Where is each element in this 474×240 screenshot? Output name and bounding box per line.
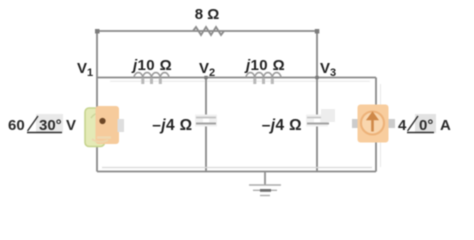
svg-text:8 Ω: 8 Ω	[195, 6, 220, 23]
ghost line above bottom wire	[102, 167, 372, 169]
wire V2 branch vertical	[205, 78, 207, 172]
svg-text:30°: 30°	[39, 117, 62, 134]
svg-text:–j4 Ω: –j4 Ω	[152, 117, 192, 134]
wire top: V1 to V3 horizontal	[97, 30, 317, 32]
svg-text:V: V	[66, 117, 76, 134]
ghost line right vertical	[380, 84, 382, 167]
resistor R 8ohm zigzag on top wire	[193, 27, 224, 35]
junction dot V3 middle	[315, 76, 318, 79]
svg-text:V3: V3	[320, 60, 336, 79]
svg-text:V1: V1	[77, 60, 93, 79]
svg-text:j10 Ω: j10 Ω	[244, 57, 285, 74]
capacitor C2 -j4ohm on V3 branch	[306, 109, 335, 127]
junction dot V2 middle	[204, 76, 207, 79]
wire bottom horizontal	[97, 171, 376, 173]
voltage source VS 60/30 V (highlighted)	[85, 106, 124, 147]
inductor L1 j10ohm	[134, 73, 169, 84]
capacitor C1 -j4ohm on V2 branch	[195, 115, 217, 127]
junction dot top-right	[315, 29, 320, 34]
label 4/0 A	[398, 114, 451, 134]
wire right branch vertical	[375, 78, 377, 172]
svg-text:60: 60	[8, 117, 25, 134]
svg-text:A: A	[440, 117, 451, 134]
svg-text:j10 Ω: j10 Ω	[131, 57, 172, 74]
wire left vertical: V1 down to bottom	[96, 31, 98, 172]
svg-text:4: 4	[398, 117, 407, 134]
inductor L2 j10ohm	[246, 73, 281, 84]
junction dot top-left	[95, 29, 100, 34]
current source IS 4/0 A (highlighted)	[352, 105, 395, 143]
wire middle horizontal: V1 to right branch	[97, 77, 376, 79]
ghost line under middle wire	[110, 80, 370, 82]
ground	[249, 172, 281, 196]
svg-text:–j4 Ω: –j4 Ω	[262, 117, 302, 134]
wire V3 branch vertical (from top wire through middle to bottom)	[316, 31, 318, 172]
label 60/30 V	[8, 114, 76, 134]
svg-text:0°: 0°	[419, 117, 433, 134]
